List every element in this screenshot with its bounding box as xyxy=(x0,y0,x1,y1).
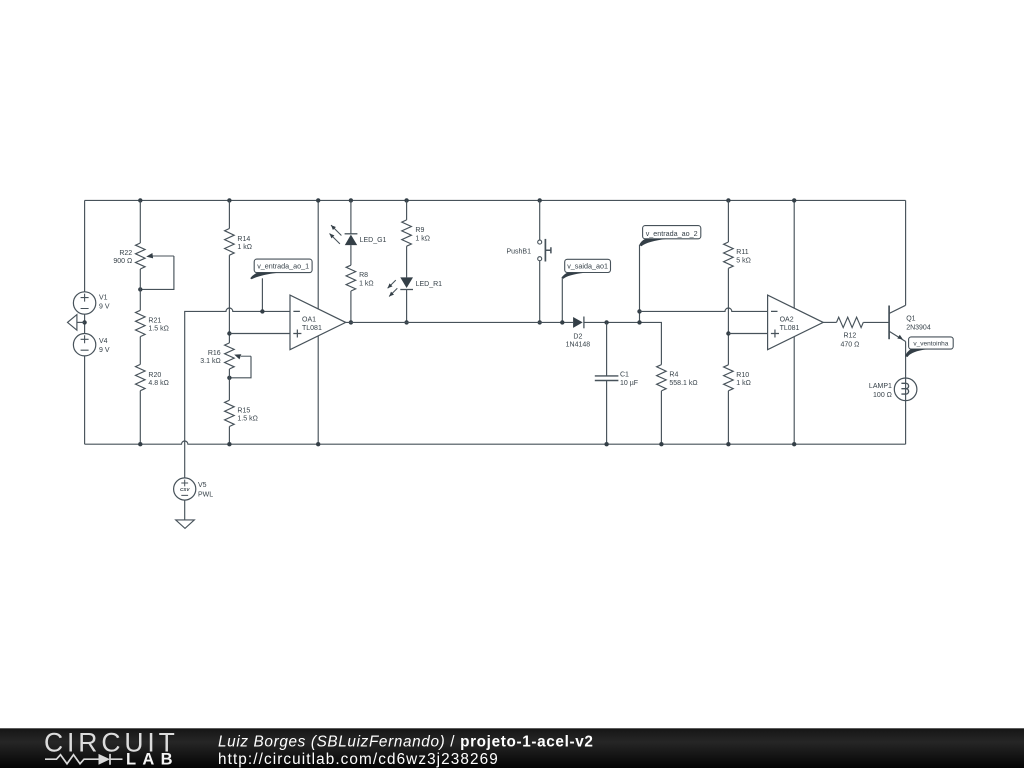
wire top rail to R9 xyxy=(406,200,408,220)
svg-text:Q1: Q1 xyxy=(906,316,915,323)
wire Q1 collector to top rail xyxy=(905,200,907,305)
svg-text:TL081: TL081 xyxy=(302,325,322,332)
svg-text:v_saida_ao1: v_saida_ao1 xyxy=(567,262,608,271)
wire LED_G1 to R8 xyxy=(350,245,352,265)
junction bottom rail / OA2 V- xyxy=(792,442,796,446)
svg-text:PWL: PWL xyxy=(198,492,213,499)
wire OA2 non-inverting input xyxy=(728,333,767,335)
wire D2 to R4 corner xyxy=(584,322,662,364)
wire R15 to bottom rail xyxy=(228,427,230,445)
push button PushB1 xyxy=(506,239,550,262)
svg-text:470 Ω: 470 Ω xyxy=(840,341,859,348)
wire R11 to OA2 non-inverting node xyxy=(727,268,729,365)
wire R4 to bottom rail xyxy=(660,391,662,444)
junction flag1 on inverting wire xyxy=(260,309,264,313)
junction bottom rail / R10 xyxy=(726,442,730,446)
lamp LAMP1 xyxy=(869,378,917,401)
resistor R14 xyxy=(225,229,252,256)
wire R22 to R21 xyxy=(139,269,141,310)
svg-text:R14: R14 xyxy=(237,236,250,243)
junction bottom rail / C1 xyxy=(604,442,608,446)
junction R22 wiper return xyxy=(138,287,142,291)
CircuitLab logo wordmark LAB xyxy=(126,751,179,768)
svg-text:C1: C1 xyxy=(620,372,629,379)
LED LED_R1 xyxy=(388,277,443,296)
svg-text:1 kΩ: 1 kΩ xyxy=(237,244,252,251)
wire R20 to bottom rail xyxy=(139,391,141,445)
wire top rail to R14 xyxy=(228,200,230,228)
wire bottom rail (with hop over V5 wire) xyxy=(85,441,906,444)
svg-text:LAB: LAB xyxy=(126,751,179,768)
svg-text:TL081: TL081 xyxy=(780,325,800,332)
node V1/V4 junction xyxy=(82,320,86,324)
junction output wire / flag2 stub xyxy=(637,320,641,324)
wire top rail to V1 xyxy=(84,200,86,291)
wire OA1 output xyxy=(346,321,573,323)
svg-text:OA1: OA1 xyxy=(302,316,316,323)
resistor R20 xyxy=(136,364,169,390)
op-amp OA1 xyxy=(290,295,346,350)
svg-text:9 V: 9 V xyxy=(99,303,110,310)
svg-text:5 kΩ: 5 kΩ xyxy=(736,257,751,264)
wire flag1 stub xyxy=(261,278,263,311)
junction bottom rail / R4 xyxy=(659,442,663,446)
svg-text:OA2: OA2 xyxy=(780,316,794,323)
svg-text:R15: R15 xyxy=(237,407,250,414)
svg-text:1.5 kΩ: 1.5 kΩ xyxy=(237,416,257,423)
svg-text:1 kΩ: 1 kΩ xyxy=(359,280,374,287)
junction top rail / OA2 V+ xyxy=(792,198,796,202)
svg-text:2N3904: 2N3904 xyxy=(906,325,931,332)
svg-text:R8: R8 xyxy=(359,272,368,279)
flag v_entrada_ao_1 xyxy=(250,259,312,279)
wire top rail to LED_G1 xyxy=(350,200,352,233)
wire R12 to Q1 base xyxy=(863,321,889,323)
junction flag2 / OA2 inverting wire xyxy=(637,309,641,313)
potentiometer R16 xyxy=(200,343,251,378)
svg-text:PushB1: PushB1 xyxy=(506,248,531,255)
wire output to C1 xyxy=(606,322,608,376)
svg-text:R22: R22 xyxy=(119,250,132,257)
wire C1 to bottom rail xyxy=(606,381,608,445)
junction top rail / PushB1 xyxy=(538,198,542,202)
svg-text:CSV: CSV xyxy=(180,487,190,492)
svg-text:100 Ω: 100 Ω xyxy=(873,392,892,399)
svg-text:R16: R16 xyxy=(208,350,221,357)
LED LED_G1 xyxy=(330,225,387,245)
wire R10 to bottom rail xyxy=(727,391,729,444)
wire to OA2 inverting input (hop over R11 branch) xyxy=(640,308,768,311)
wire LAMP1 to bottom rail xyxy=(905,401,907,445)
svg-text:Luiz Borges (SBLuizFernando) /: Luiz Borges (SBLuizFernando) / projeto-1… xyxy=(218,734,594,751)
svg-text:R20: R20 xyxy=(148,372,161,379)
wire V1 to V4 node xyxy=(84,314,86,333)
svg-text:v_ventoinha: v_ventoinha xyxy=(913,341,948,348)
svg-text:3.1 kΩ: 3.1 kΩ xyxy=(200,358,220,365)
footer bar background xyxy=(0,728,1024,768)
resistor R10 xyxy=(724,365,751,391)
wire top supply rail xyxy=(85,199,906,201)
op-amp OA2 xyxy=(768,295,824,350)
op-amp OA2 power stub (bottom) xyxy=(793,337,795,445)
flag v_ventoinha xyxy=(905,337,953,357)
junction output wire / R8 xyxy=(349,320,353,324)
wire R16 to R15 xyxy=(228,369,230,400)
wire OA1 non-inverting input xyxy=(229,333,290,335)
svg-text:R4: R4 xyxy=(669,372,678,379)
svg-text:9 V: 9 V xyxy=(99,347,110,354)
potentiometer R22 xyxy=(113,243,174,289)
wire OA1 inverting input to V5 (hop over R14 branch) xyxy=(185,308,290,478)
svg-text:1N4148: 1N4148 xyxy=(566,342,591,349)
junction top rail / R14 branch xyxy=(227,198,231,202)
svg-text:v_entrada_ao_1: v_entrada_ao_1 xyxy=(257,262,309,271)
diode D2 xyxy=(566,317,591,349)
ground (left, between V1 and V4) xyxy=(68,315,85,331)
junction output wire / LED_R1 xyxy=(404,320,408,324)
junction top rail / R22 branch xyxy=(138,198,142,202)
wire top rail to PushB1 xyxy=(539,200,541,240)
svg-text:900 Ω: 900 Ω xyxy=(113,258,132,265)
resistor R15 xyxy=(225,400,258,426)
resistor R4 xyxy=(657,365,698,391)
CircuitLab logo resistor-diode icon xyxy=(45,754,123,765)
svg-text:D2: D2 xyxy=(573,333,582,340)
junction output wire / v_saida xyxy=(560,320,564,324)
voltage source V1 xyxy=(73,292,109,314)
flag v_saida_ao1 xyxy=(561,259,610,279)
voltage source V5 (PWL) xyxy=(174,478,214,500)
svg-text:LAMP1: LAMP1 xyxy=(869,383,892,390)
resistor R9 xyxy=(402,220,430,246)
svg-text:4.8 kΩ: 4.8 kΩ xyxy=(148,380,168,387)
svg-text:R12: R12 xyxy=(843,333,856,340)
wire V4 to bottom rail xyxy=(84,356,86,444)
svg-text:V4: V4 xyxy=(99,338,108,345)
resistor R11 xyxy=(724,242,751,268)
junction top rail / LED_G1 branch xyxy=(349,198,353,202)
resistor R12 xyxy=(837,317,864,348)
wire LED_R1 to output wire xyxy=(406,290,408,323)
junction top rail / OA1 V+ xyxy=(316,198,320,202)
footer author line xyxy=(218,734,594,751)
svg-text:R9: R9 xyxy=(415,227,424,234)
svg-text:R10: R10 xyxy=(736,372,749,379)
resistor R8 xyxy=(346,265,374,291)
wire V5 to ground xyxy=(184,500,186,520)
junction bottom rail / R20 xyxy=(138,442,142,446)
wire flag v_entrada_ao_2 stub xyxy=(639,245,641,322)
capacitor C1 xyxy=(595,372,638,388)
svg-text:558.1 kΩ: 558.1 kΩ xyxy=(669,380,697,387)
junction top rail / R11 xyxy=(726,198,730,202)
svg-text:1 kΩ: 1 kΩ xyxy=(736,380,751,387)
junction bottom rail / R15 xyxy=(227,442,231,446)
wire PushB1 to output wire xyxy=(539,261,541,323)
svg-text:1 kΩ: 1 kΩ xyxy=(415,235,430,242)
op-amp OA2 power stub (top) xyxy=(793,200,795,308)
op-amp OA1 power stub (bottom) xyxy=(317,336,319,444)
junction OA1 non-inverting tap xyxy=(227,331,231,335)
svg-text:V1: V1 xyxy=(99,294,108,301)
svg-text:LED_G1: LED_G1 xyxy=(360,237,387,244)
wire R8 to output wire xyxy=(350,291,352,322)
wire top rail to R11 xyxy=(727,200,729,242)
svg-text:R11: R11 xyxy=(736,249,748,256)
junction R16 wiper return xyxy=(227,376,231,380)
wire Q1 emitter to LAMP1 xyxy=(905,342,907,379)
svg-text:R21: R21 xyxy=(148,317,161,324)
svg-text:http://circuitlab.com/cd6wz3j2: http://circuitlab.com/cd6wz3j238269 xyxy=(218,751,499,768)
svg-text:V5: V5 xyxy=(198,482,207,489)
voltage source V4 xyxy=(73,334,109,356)
svg-text:LED_R1: LED_R1 xyxy=(416,281,443,288)
flag v_entrada_ao_2 xyxy=(639,226,701,247)
junction output wire / C1 xyxy=(604,320,608,324)
junction bottom rail / OA1 V- xyxy=(316,442,320,446)
svg-text:1.5 kΩ: 1.5 kΩ xyxy=(148,326,168,333)
svg-text:v_entrada_ao_2: v_entrada_ao_2 xyxy=(646,229,698,238)
wire OA2 output to R12 xyxy=(823,321,836,323)
junction output wire / PushB1 xyxy=(538,320,542,324)
wire top rail to R22 xyxy=(139,200,141,243)
svg-text:10 µF: 10 µF xyxy=(620,380,638,387)
wire R21 to R20 xyxy=(139,337,141,365)
wire R9 to LED_R1 xyxy=(406,246,408,277)
CircuitLab logo wordmark CIRCUIT xyxy=(44,727,179,757)
resistor R21 xyxy=(136,310,169,336)
junction top rail / R9 branch xyxy=(404,198,408,202)
junction OA2 non-inverting node xyxy=(726,331,730,335)
ground (below V5) xyxy=(176,520,195,529)
transistor Q1 (NPN 2N3904) xyxy=(889,305,931,341)
footer url line xyxy=(218,751,499,768)
op-amp OA1 power stub (top) xyxy=(317,200,319,309)
wire R14 to R16 xyxy=(228,255,230,343)
wire v_saida stub xyxy=(561,278,563,322)
